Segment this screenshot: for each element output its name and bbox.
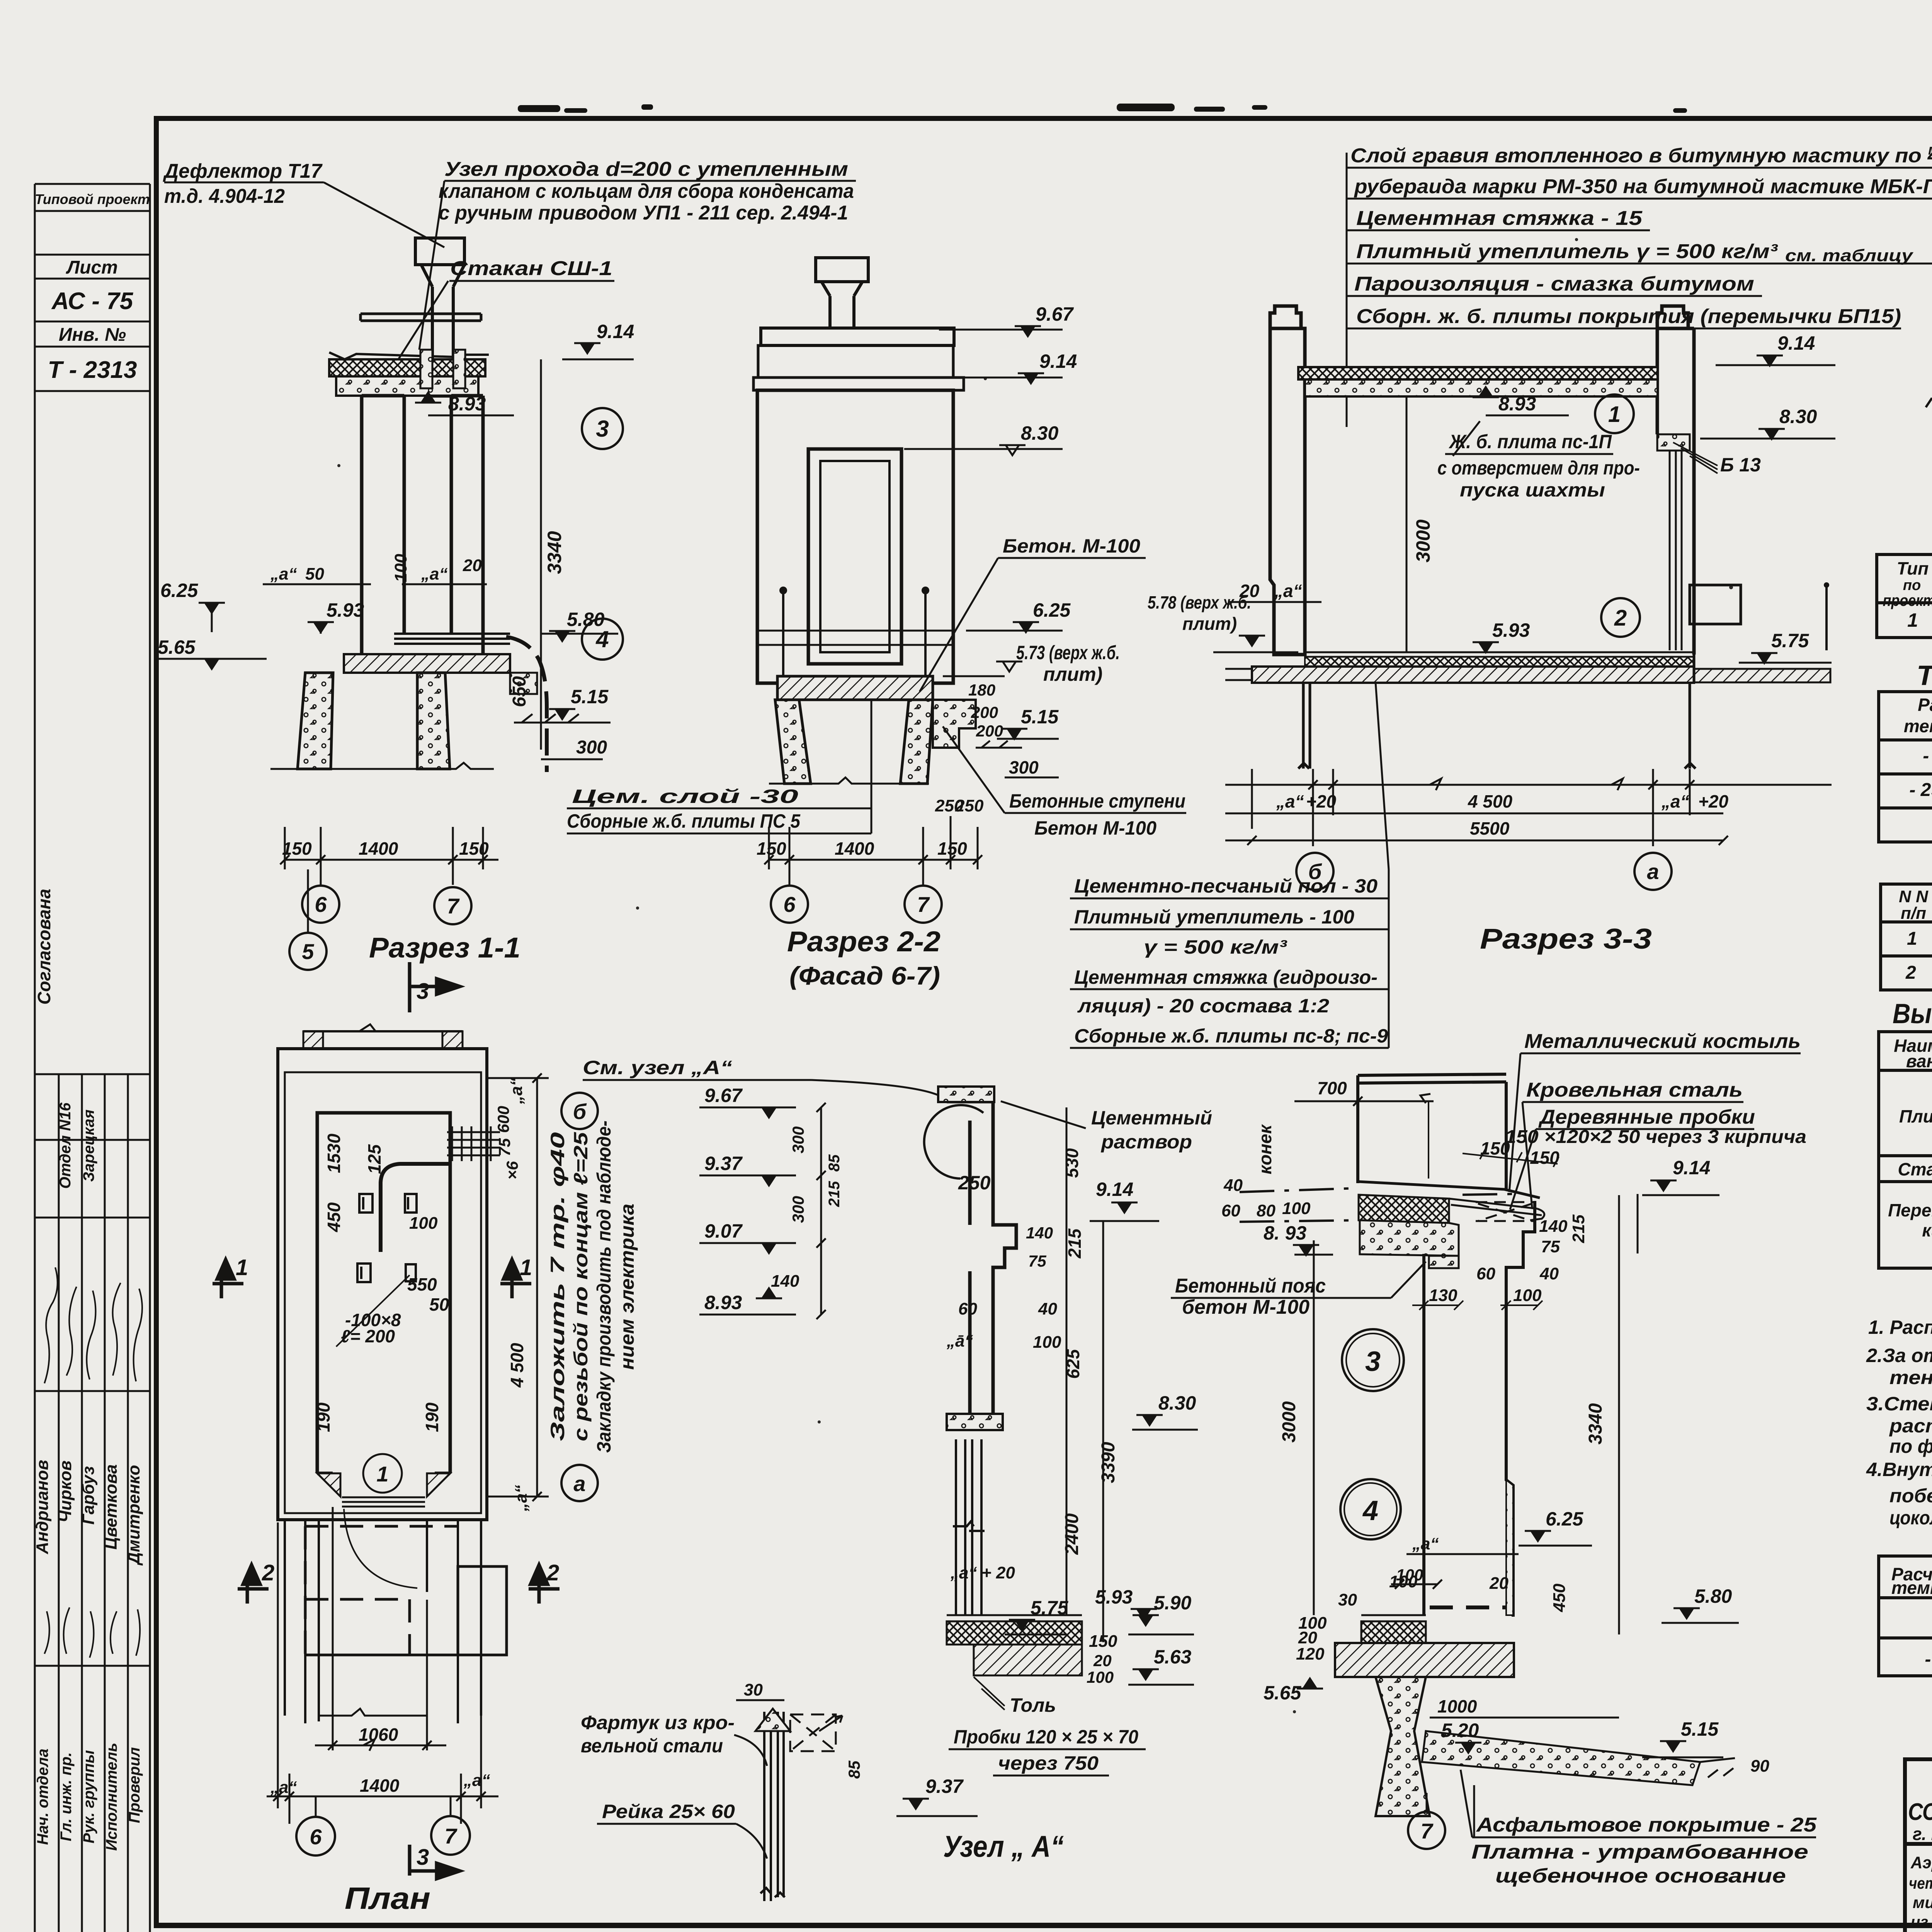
svg-text:450: 450 (324, 1202, 344, 1232)
svg-text:8. 93: 8. 93 (1264, 1222, 1306, 1244)
svg-text:300: 300 (789, 1126, 807, 1153)
svg-text:75: 75 (1541, 1237, 1560, 1256)
svg-text:530: 530 (1062, 1148, 1082, 1178)
roof slab 3-3 dotted (1305, 379, 1658, 396)
svg-text:5.15: 5.15 (571, 686, 609, 707)
apron hatched cap (755, 1709, 790, 1731)
svg-text:8.93: 8.93 (704, 1292, 742, 1313)
footing step right (510, 673, 537, 694)
wall plaster right hatched (1506, 1480, 1513, 1615)
svg-text:рубераида марки РМ-350 на би: рубераида марки РМ-350 на битумной масти… (1354, 175, 1932, 198)
svg-text:9.14: 9.14 (1096, 1179, 1133, 1200)
plan bottom break (319, 1709, 427, 1716)
svg-text:Перемыч-: Перемыч- (1888, 1200, 1932, 1220)
interior floor 3-3 (1305, 652, 1694, 657)
svg-text:ми коридора 9 × 5.2 × 150м: ми коридора 9 × 5.2 × 150м (1913, 1893, 1932, 1912)
svg-text:Деревянные пробки: Деревянные пробки (1538, 1106, 1755, 1128)
node A cap hatched (938, 1087, 994, 1102)
bottom dim 3-3 (1225, 769, 1832, 846)
plan outer wall (278, 1049, 487, 1520)
strip outer verticals (34, 184, 36, 1932)
node A wall profile (947, 1088, 1016, 1414)
svg-text:40: 40 (1539, 1264, 1559, 1283)
svg-text:3390: 3390 (1098, 1442, 1119, 1483)
svg-text:180: 180 (968, 681, 995, 699)
deflector cap (415, 238, 464, 396)
step block right 3-3 (1690, 585, 1741, 624)
svg-text:4 500: 4 500 (1468, 791, 1513, 811)
roof insulation band (crosshatch) (329, 359, 485, 376)
svg-text:Зарецкая: Зарецкая (80, 1109, 97, 1182)
svg-text:См. узел „А“: См. узел „А“ (583, 1057, 732, 1078)
plan inner wall line (285, 1072, 481, 1513)
svg-text:3000: 3000 (1279, 1401, 1299, 1442)
svg-text:ℓ= 200: ℓ= 200 (341, 1326, 395, 1346)
svg-text:450: 450 (1550, 1583, 1569, 1612)
svg-text:1060: 1060 (359, 1725, 398, 1745)
porch right block (458, 1566, 507, 1655)
axis circle 7 (434, 887, 471, 924)
svg-text:3: 3 (596, 416, 609, 442)
plan bottom dims (267, 1507, 498, 1824)
svg-text:100: 100 (1396, 1566, 1423, 1584)
svg-text:с отверстием для про-: с отверстием для про- (1437, 457, 1640, 479)
svg-text:5.20: 5.20 (1441, 1719, 1479, 1741)
wooden plugs dashed X (1476, 1202, 1534, 1221)
svg-text:Андрианов: Андрианов (33, 1460, 52, 1554)
svg-text:5.93: 5.93 (327, 599, 364, 621)
svg-text:Цементная стяжка (гидроизо-: Цементная стяжка (гидроизо- (1074, 966, 1378, 988)
svg-text:Б 13: Б 13 (1720, 454, 1761, 476)
conduit curve in plan (381, 1164, 450, 1252)
signature squiggles (44, 1267, 142, 1658)
node A big arc fragment (924, 1105, 983, 1179)
svg-text:5.80: 5.80 (1694, 1585, 1732, 1607)
top-right tick group (closure x6) (447, 1126, 500, 1161)
bottom dim line 2-2 (764, 816, 982, 885)
svg-text:Проверил: Проверил (126, 1747, 143, 1823)
svg-text:АС - 75: АС - 75 (51, 288, 134, 315)
svg-text:3: 3 (417, 979, 429, 1004)
svg-text:5500: 5500 (1470, 818, 1510, 838)
svg-text:из сборного железобетона: из сборного железобетона (1911, 1913, 1932, 1931)
strip signature grid (35, 1073, 150, 1075)
svg-text:9.67: 9.67 (1036, 303, 1074, 325)
section 1-1 walls (362, 396, 483, 654)
svg-text:5.80: 5.80 (567, 609, 605, 630)
svg-text:- 29° и выше: - 29° и выше (1909, 780, 1932, 800)
svg-text:плит): плит) (1182, 614, 1237, 634)
svg-text:Исполнитель: Исполнитель (103, 1743, 120, 1851)
svg-text:2400: 2400 (1062, 1513, 1082, 1555)
roof layer bands (1359, 1195, 1449, 1223)
svg-text:Т - 2313: Т - 2313 (48, 357, 137, 383)
svg-text:150: 150 (757, 838, 786, 859)
svg-text:9.14: 9.14 (597, 321, 634, 342)
strip top boxes (35, 183, 150, 185)
svg-text:четырехкоридорные с размера-: четырехкоридорные с размера- (1909, 1874, 1932, 1892)
svg-text:тенка и соответствует абсол: тенка и соответствует абсолютной отм. (1889, 1367, 1932, 1388)
right leg 2-2 (900, 700, 933, 784)
svg-text:3.Стены из обыкновенного г: 3.Стены из обыкновенного глиняного кирпи… (1866, 1393, 1932, 1415)
svg-text:Аэротенки - смесители: Аэротенки - смесители (1910, 1853, 1932, 1872)
svg-text:85: 85 (845, 1760, 863, 1779)
svg-text:5.63: 5.63 (1154, 1646, 1192, 1668)
roof band 3-3 crosshatch (1298, 367, 1658, 379)
svg-text:+20: +20 (1306, 791, 1336, 811)
lintel Б13 hatched (1657, 434, 1690, 451)
svg-text:300: 300 (1009, 757, 1039, 777)
svg-text:1: 1 (520, 1255, 532, 1280)
svg-text:ляция) - 20 состава 1:2: ляция) - 20 состава 1:2 (1077, 995, 1329, 1017)
svg-text:40: 40 (1223, 1176, 1243, 1195)
svg-text:„а“: „а“ (270, 1778, 297, 1797)
svg-text:Плитный утеплитель - 100: Плитный утеплитель - 100 (1074, 906, 1354, 928)
svg-text:Расчетная: Расчетная (1918, 695, 1932, 715)
svg-text:Лист: Лист (66, 257, 118, 278)
left leg 2-2 (775, 700, 811, 784)
svg-text:„а“: „а“ (463, 1771, 490, 1790)
svg-text:Дмитренко: Дмитренко (124, 1465, 143, 1566)
level 8.93 flag (415, 393, 441, 403)
svg-text:Плитный утеплитель γ = 50: Плитный утеплитель γ = 500 кг/м³ (1356, 240, 1778, 263)
roof slope top line (1359, 1182, 1540, 1198)
svg-text:1000: 1000 (1437, 1696, 1477, 1716)
svg-text:„a“: „a“ (950, 1563, 977, 1582)
svg-text:8.30: 8.30 (1021, 422, 1059, 444)
svg-text:1. Расположение будок кип н: 1. Расположение будок кип на аэротенке с… (1868, 1316, 1932, 1338)
embedded plates in plan (357, 1194, 417, 1282)
floor slab hatched (344, 654, 510, 673)
bottom dim line 1-1 (280, 827, 498, 885)
svg-text:6: 6 (310, 1825, 322, 1849)
svg-text:4.Внутренние поверхности с: 4.Внутренние поверхности стен окрасить к… (1866, 1459, 1932, 1480)
svg-text:9.37: 9.37 (704, 1153, 743, 1174)
svg-text:Разрез 2-2: Разрез 2-2 (787, 925, 940, 957)
svg-text:с ручным приводом УП1 - 21: с ручным приводом УП1 - 211 сер. 2.494-1 (439, 202, 848, 224)
svg-text:3: 3 (1365, 1346, 1381, 1377)
leader to deflector (324, 182, 444, 247)
section mark 3 bottom (410, 1845, 460, 1879)
svg-text:3000: 3000 (1412, 519, 1434, 562)
svg-text:„а“: „а“ (512, 1485, 531, 1512)
circle 4 detail (1340, 1479, 1401, 1539)
circle 3 (582, 408, 623, 449)
door swing arc (344, 1509, 417, 1588)
axis circle б plan (561, 1093, 598, 1129)
below-grade walls 3-3 (1298, 624, 1696, 769)
svg-text:Нач. отдела: Нач. отдела (34, 1748, 51, 1845)
svg-text:„а“: „а“ (1276, 791, 1304, 811)
svg-text:б: б (573, 1099, 587, 1124)
svg-text:6: 6 (315, 892, 327, 917)
svg-text:300: 300 (576, 737, 607, 758)
svg-text:- 29° и выше: - 29° и выше (1925, 1649, 1932, 1670)
axis circle 7 plan (450, 1796, 452, 1816)
pin right 3-3 (1825, 587, 1828, 650)
svg-text:50: 50 (429, 1294, 449, 1315)
svg-text:20: 20 (1093, 1651, 1112, 1670)
svg-text:1: 1 (1608, 402, 1621, 427)
svg-text:Чирков: Чирков (56, 1461, 75, 1523)
svg-text:Типовой проект: Типовой проект (35, 191, 150, 207)
parapet top band (361, 314, 481, 321)
right leg (417, 673, 450, 769)
svg-text:нием электрика: нием электрика (616, 1204, 638, 1370)
svg-text:Слой гравия втопленного в б: Слой гравия втопленного в битумную масти… (1350, 145, 1932, 167)
svg-text:Закладку производить под наб: Закладку производить под наблюде- (593, 1121, 615, 1453)
svg-text:2.За относительную отм. 0,00: 2.За относительную отм. 0,00 принят верх… (1866, 1345, 1932, 1366)
svg-text:150: 150 (1089, 1632, 1117, 1651)
svg-text:5.65: 5.65 (158, 636, 196, 658)
svg-text:1: 1 (1907, 609, 1918, 631)
svg-text:Узел прохода d=200 с утепл: Узел прохода d=200 с утепленным (444, 158, 848, 180)
svg-text:5.75: 5.75 (1771, 630, 1810, 651)
svg-text:2: 2 (1614, 605, 1627, 631)
svg-text:Бетонные ступени: Бетонные ступени (1009, 790, 1185, 812)
svg-text:75: 75 (1028, 1252, 1046, 1270)
svg-text:300: 300 (789, 1196, 807, 1223)
right apron slab 3-3 (1694, 669, 1830, 682)
svg-text:цоколь оштукатурить цементны: цоколь оштукатурить цементным раствором … (1889, 1507, 1932, 1529)
svg-text:8.93: 8.93 (1498, 393, 1536, 415)
svg-text:Выборка сборных железобетонн: Выборка сборных железобетонных элементов… (1893, 998, 1932, 1029)
axis circle 7 of 2-2 (905, 886, 942, 923)
svg-text:„а“: „а“ (1412, 1534, 1439, 1553)
svg-text:N N: N N (1899, 887, 1929, 906)
left leg (298, 673, 333, 769)
door leaf 3-3 (1670, 451, 1682, 650)
plan dim vertical line right (487, 1073, 549, 1501)
svg-text:т.д. 4.904-12: т.д. 4.904-12 (164, 185, 285, 207)
svg-text:Сборн. ж. б. плиты покрытия: Сборн. ж. б. плиты покрытия (перемычки Б… (1356, 305, 1901, 328)
dashed floor line in wall (1430, 1605, 1509, 1609)
svg-text:100: 100 (1033, 1333, 1061, 1352)
svg-text:Гарбуз: Гарбуз (79, 1466, 98, 1524)
svg-text:2: 2 (546, 1560, 559, 1585)
node A floor layers (947, 1615, 1082, 1621)
svg-text:„а“: „а“ (270, 565, 297, 583)
svg-text:γ = 500 кг/м³: γ = 500 кг/м³ (1144, 936, 1287, 958)
svg-text:Сборные ж.б. плиты пс-8; пс-: Сборные ж.б. плиты пс-8; пс-9 (1074, 1025, 1388, 1047)
axis circle 6 of 2-2 (771, 886, 808, 923)
svg-text:Бетон М-100: Бетон М-100 (1034, 817, 1156, 839)
upper wall band 2-2 (758, 345, 953, 378)
svg-text:3: 3 (417, 1845, 429, 1870)
svg-text:1400: 1400 (359, 838, 398, 859)
svg-text:100: 100 (391, 554, 410, 582)
ground slope hatch under 1-1 (514, 714, 603, 723)
svg-text:5.65: 5.65 (1264, 1682, 1302, 1704)
wall body 2-2 (757, 390, 953, 683)
svg-text:6.25: 6.25 (160, 580, 199, 601)
svg-text:100: 100 (409, 1214, 438, 1233)
svg-text:150: 150 (459, 838, 489, 859)
svg-text:6.25: 6.25 (1546, 1508, 1584, 1530)
svg-text:190: 190 (313, 1402, 333, 1432)
roof slab band (dotted concrete) (336, 376, 478, 396)
drain pipe curve (506, 637, 547, 772)
svg-text:1: 1 (376, 1462, 388, 1486)
svg-text:250: 250 (958, 1172, 991, 1194)
svg-text:4 500: 4 500 (507, 1343, 527, 1388)
svg-text:9.14: 9.14 (1039, 350, 1077, 372)
axis circle б (1296, 853, 1333, 890)
step block right 2-2 (933, 700, 976, 748)
svg-text:Асфальтовое покрытие - 25: Асфальтовое покрытие - 25 (1476, 1814, 1817, 1836)
svg-text:60: 60 (958, 1299, 977, 1318)
svg-text:клапаном с кольцам для сбора к: клапаном с кольцам для сбора конденсата (439, 180, 854, 202)
svg-text:7: 7 (917, 892, 930, 917)
svg-text:9.67: 9.67 (704, 1085, 743, 1106)
svg-text:215: 215 (1569, 1214, 1588, 1243)
svg-text:Пробки 120 × 25 × 70: Пробки 120 × 25 × 70 (954, 1726, 1138, 1748)
upper wall (1358, 1074, 1506, 1189)
svg-text:85: 85 (826, 1154, 843, 1172)
node A window frame verticals (953, 1439, 985, 1615)
svg-text:120: 120 (1296, 1645, 1325, 1663)
svg-text:Бетонный пояс: Бетонный пояс (1175, 1275, 1326, 1297)
svg-text:5.73 (верх ж.б.: 5.73 (верх ж.б. (1016, 642, 1120, 663)
floor hatched bands circle 4 (1361, 1615, 1426, 1621)
svg-text:пуска шахты: пуска шахты (1460, 479, 1605, 501)
svg-text:Ж. б. плита пс-1П: Ж. б. плита пс-1П (1448, 431, 1612, 452)
svg-text:Отдел N16: Отдел N16 (57, 1102, 74, 1189)
scan blotches top edge (518, 104, 1932, 119)
svg-text:Цветкова: Цветкова (102, 1464, 121, 1550)
svg-text:4: 4 (595, 626, 609, 652)
interior floor lines (394, 634, 510, 644)
svg-text:Стакан: Стакан (1898, 1159, 1932, 1179)
svg-text:150 ×120×2 50 через 3 кирпича: 150 ×120×2 50 через 3 кирпича (1505, 1127, 1806, 1147)
footing below circle 4 (1376, 1677, 1430, 1816)
right pilaster 3-3 (1657, 306, 1694, 655)
svg-text:150: 150 (937, 838, 967, 859)
svg-text:5.15: 5.15 (1021, 706, 1059, 728)
svg-text:растворе марки 25. Кладку в: растворе марки 25. Кладку вести с подбор… (1889, 1415, 1932, 1437)
svg-text:140: 140 (1026, 1224, 1053, 1242)
svg-text:г. Москва: г. Москва (1913, 1824, 1932, 1844)
cornice 2-2 (753, 378, 964, 390)
svg-text:Рук. группы: Рук. группы (80, 1750, 97, 1843)
svg-text:30: 30 (1338, 1590, 1357, 1609)
axis circle 5 (307, 869, 309, 933)
svg-text:конек: конек (1255, 1124, 1275, 1174)
axis circle 6 (302, 886, 339, 923)
svg-text:ки: ки (1922, 1220, 1932, 1240)
svg-text:Рейка 25× 60: Рейка 25× 60 (602, 1801, 735, 1822)
door 2-2 (808, 449, 901, 664)
svg-text:140: 140 (1539, 1217, 1568, 1236)
svg-text:215: 215 (1065, 1228, 1085, 1259)
svg-text:9.37: 9.37 (925, 1776, 964, 1797)
svg-text:5.15: 5.15 (1681, 1718, 1719, 1740)
svg-text:„а“: „а“ (1661, 791, 1689, 811)
svg-text:125: 125 (364, 1144, 384, 1174)
svg-text:9.14: 9.14 (1673, 1157, 1710, 1179)
svg-text:Фартук из кро-: Фартук из кро- (581, 1712, 735, 1733)
small ledge block (1429, 1256, 1459, 1268)
base course line 2-2 (757, 631, 953, 645)
scan speckles (337, 238, 1932, 1713)
plan room outline (317, 1113, 450, 1473)
stakan collars (420, 350, 432, 388)
svg-text:200: 200 (976, 722, 1003, 740)
svg-text:2: 2 (262, 1560, 274, 1585)
svg-text:бетон М-100: бетон М-100 (1182, 1296, 1310, 1318)
svg-text:проекту: проекту (1883, 591, 1932, 609)
svg-text:Платна - утрамбованное: Платна - утрамбованное (1471, 1841, 1808, 1863)
svg-text:см. таблицу: см. таблицу (1785, 246, 1914, 265)
svg-text:9.14: 9.14 (1777, 332, 1815, 354)
left pilaster 3-3 (1270, 306, 1305, 655)
axis circle а plan (561, 1465, 598, 1501)
svg-text:Сборные ж.б. плиты ПС 5: Сборные ж.б. плиты ПС 5 (567, 810, 801, 832)
svg-text:Дефлектор Т17: Дефлектор Т17 (163, 160, 323, 182)
svg-text:плит): плит) (1043, 663, 1102, 685)
section mark 3 top (410, 962, 460, 1012)
svg-text:План: План (345, 1881, 430, 1915)
svg-text:9.07: 9.07 (704, 1220, 743, 1242)
vertical dim 3340 (540, 359, 542, 634)
svg-text:7: 7 (444, 1824, 457, 1848)
svg-text:150: 150 (282, 838, 312, 859)
svg-text:„а“: „а“ (1274, 581, 1302, 601)
rebar pins 2-2 (781, 588, 928, 709)
svg-text:3340: 3340 (1585, 1403, 1606, 1444)
dim 650 rotated (540, 634, 542, 750)
apron dashed box with X (790, 1714, 836, 1751)
svg-text:Разрез 3-3: Разрез 3-3 (1480, 923, 1652, 955)
svg-text:6.25: 6.25 (1033, 599, 1071, 621)
svg-text:90: 90 (1750, 1757, 1769, 1776)
node A slab hatched (947, 1414, 1003, 1430)
svg-text:побелить известью. Откосы д: побелить известью. Откосы дверного проем… (1889, 1485, 1932, 1507)
svg-text:„а“: „а“ (507, 1078, 526, 1104)
ground squiggle at legs bottom (270, 763, 494, 769)
svg-text:20: 20 (463, 556, 482, 575)
svg-text:550: 550 (407, 1274, 437, 1294)
circle 4 (582, 619, 623, 660)
base rails facade a-b (1926, 371, 1932, 425)
dash-dot slope lines (1240, 1188, 1512, 1195)
svg-text:1400: 1400 (835, 838, 874, 859)
svg-text:Кровельная сталь: Кровельная сталь (1526, 1079, 1743, 1101)
svg-text:5.78 (верх ж.б.: 5.78 (верх ж.б. (1148, 592, 1251, 612)
svg-text:Металлический костыль: Металлический костыль (1524, 1030, 1801, 1053)
svg-text:100: 100 (1282, 1199, 1311, 1218)
svg-text:Бетон. М-100: Бетон. М-100 (1003, 535, 1140, 557)
svg-text:Плиты: Плиты (1899, 1106, 1932, 1126)
svg-text:через 750: через 750 (998, 1752, 1099, 1774)
frame bottom border (154, 1923, 1932, 1928)
svg-text:п/п: п/п (1901, 904, 1926, 923)
svg-text:м: м (1928, 142, 1932, 158)
svg-text:6: 6 (783, 892, 796, 917)
svg-text:а: а (573, 1471, 585, 1496)
svg-text:+ 20: + 20 (981, 1563, 1015, 1582)
svg-text:„ā“: „ā“ (946, 1332, 973, 1350)
vertical dim line node A (816, 1103, 826, 1319)
svg-text:30: 30 (744, 1680, 763, 1699)
floor composition note 3-3 (1074, 875, 1388, 1047)
svg-text:Цементно-песчаный пол - 30: Цементно-песчаный пол - 30 (1074, 875, 1378, 897)
svg-text:с резьбой по концам ℓ=25: с резьбой по концам ℓ=25 (570, 1132, 592, 1441)
svg-text:5.93: 5.93 (1492, 619, 1530, 641)
svg-text:40: 40 (1038, 1299, 1057, 1318)
porch dashed (305, 1526, 458, 1655)
svg-text:140: 140 (771, 1272, 799, 1291)
